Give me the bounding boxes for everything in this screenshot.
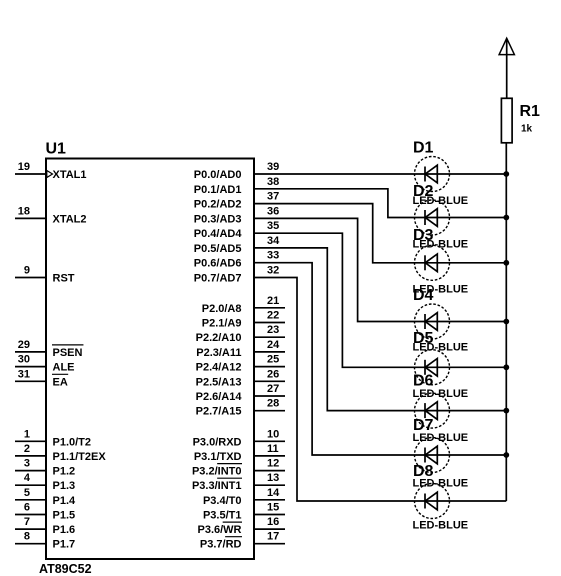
svg-text:17: 17: [267, 531, 279, 543]
pin 29 wire: [15, 351, 46, 353]
wire pin 39 to LED D1: [254, 173, 415, 175]
svg-text:P3.4/T0: P3.4/T0: [203, 495, 242, 507]
wire pin 37 to LED D3: [254, 204, 415, 263]
pin 3 wire: [15, 470, 46, 472]
pin 17 wire stub: [254, 543, 285, 545]
pin 22 wire stub: [254, 322, 285, 324]
svg-text:P1.0/T2: P1.0/T2: [53, 436, 92, 448]
svg-text:16: 16: [267, 516, 279, 528]
svg-text:19: 19: [18, 161, 30, 173]
overline INT0: [217, 463, 242, 465]
svg-text:P2.7/A15: P2.7/A15: [196, 406, 242, 418]
resistor R1: [501, 98, 512, 143]
svg-text:P2.2/A10: P2.2/A10: [196, 332, 242, 344]
svg-text:31: 31: [18, 368, 30, 380]
pin 23 wire stub: [254, 336, 285, 338]
pin 11 wire stub: [254, 455, 285, 457]
junction node D5/rail: [503, 364, 509, 370]
svg-text:AT89C52: AT89C52: [39, 562, 92, 576]
svg-text:30: 30: [18, 354, 30, 366]
LED D6: [415, 393, 450, 428]
svg-text:XTAL1: XTAL1: [53, 169, 87, 181]
svg-text:28: 28: [267, 398, 279, 410]
pin 2 wire: [15, 455, 46, 457]
LED D8 right lead wire: [415, 500, 507, 502]
svg-text:P2.6/A14: P2.6/A14: [196, 391, 243, 403]
svg-text:P2.1/A9: P2.1/A9: [202, 318, 242, 330]
svg-text:P2.3/A11: P2.3/A11: [196, 347, 241, 359]
pin 30 wire: [15, 366, 46, 368]
svg-text:P0.7/AD7: P0.7/AD7: [194, 273, 242, 285]
svg-text:32: 32: [267, 265, 279, 277]
pin 14 wire stub: [254, 499, 285, 501]
svg-text:14: 14: [267, 487, 280, 499]
LED D3 right lead wire: [415, 262, 507, 264]
svg-text:26: 26: [267, 368, 279, 380]
LED D4 right lead wire: [415, 321, 507, 323]
svg-text:P2.0/A8: P2.0/A8: [202, 303, 242, 315]
svg-text:P3.5/T1: P3.5/T1: [203, 510, 242, 522]
svg-text:D6: D6: [413, 373, 434, 390]
pin 12 wire stub: [254, 470, 285, 472]
svg-text:11: 11: [267, 443, 279, 455]
junction node D3/rail: [503, 260, 509, 266]
LED D8: [415, 484, 450, 519]
svg-text:34: 34: [267, 235, 280, 247]
svg-text:23: 23: [267, 324, 279, 336]
LED D2: [415, 200, 450, 235]
svg-text:P1.5: P1.5: [53, 510, 76, 522]
svg-text:P1.1/T2EX: P1.1/T2EX: [53, 451, 107, 463]
svg-text:P1.3: P1.3: [53, 480, 76, 492]
svg-text:D2: D2: [413, 183, 434, 200]
svg-text:39: 39: [267, 161, 279, 173]
svg-text:3: 3: [24, 458, 30, 470]
svg-text:29: 29: [18, 339, 30, 351]
svg-text:9: 9: [24, 265, 30, 277]
svg-text:13: 13: [267, 472, 279, 484]
pin 31 wire: [15, 380, 46, 382]
svg-text:7: 7: [24, 516, 30, 528]
pin 24 wire stub: [254, 351, 285, 353]
pin 6 wire: [15, 514, 46, 516]
svg-text:LED-BLUE: LED-BLUE: [413, 520, 469, 532]
svg-text:P0.0/AD0: P0.0/AD0: [194, 169, 242, 181]
svg-text:P0.3/AD3: P0.3/AD3: [194, 213, 242, 225]
svg-text:24: 24: [267, 339, 280, 351]
svg-text:P0.2/AD2: P0.2/AD2: [194, 199, 242, 211]
svg-text:18: 18: [18, 205, 30, 217]
svg-text:36: 36: [267, 205, 279, 217]
svg-text:P3.2/INT0: P3.2/INT0: [192, 466, 242, 478]
LED D1 right lead wire: [415, 173, 507, 175]
pin 28 wire stub: [254, 410, 285, 412]
svg-text:P3.6/WR: P3.6/WR: [197, 524, 241, 536]
LED D3: [415, 245, 450, 280]
svg-text:P1.4: P1.4: [53, 495, 77, 507]
XTAL1 clock marker: [47, 171, 53, 178]
svg-text:1: 1: [24, 428, 30, 440]
junction node D1/rail: [503, 171, 509, 177]
svg-text:22: 22: [267, 310, 279, 322]
wire pin 33 to LED D7: [254, 263, 415, 455]
pin 25 wire stub: [254, 366, 285, 368]
LED D7 right lead wire: [415, 454, 507, 456]
svg-text:EA: EA: [53, 376, 68, 388]
pin 7 wire: [15, 528, 46, 530]
overline WR: [223, 521, 242, 523]
svg-text:P3.7/RD: P3.7/RD: [200, 539, 242, 551]
overline RD: [225, 536, 242, 538]
pin 15 wire stub: [254, 514, 285, 516]
svg-text:6: 6: [24, 502, 30, 514]
pin 27 wire stub: [254, 395, 285, 397]
svg-text:1k: 1k: [521, 124, 533, 135]
svg-text:P0.1/AD1: P0.1/AD1: [194, 184, 242, 196]
svg-text:D5: D5: [413, 330, 434, 347]
LED D5: [415, 350, 450, 385]
pin 26 wire stub: [254, 380, 285, 382]
svg-text:P3.0/RXD: P3.0/RXD: [193, 436, 242, 448]
svg-text:12: 12: [267, 458, 279, 470]
LED D5 right lead wire: [415, 366, 507, 368]
svg-text:D7: D7: [413, 417, 434, 434]
wire pin 35 to LED D5: [254, 233, 415, 367]
wire pin 34 to LED D6: [254, 248, 415, 411]
svg-text:XTAL2: XTAL2: [53, 213, 87, 225]
pin 10 wire stub: [254, 440, 285, 442]
svg-text:RST: RST: [53, 273, 75, 285]
svg-text:P3.1/TXD: P3.1/TXD: [194, 451, 242, 463]
svg-text:35: 35: [267, 220, 279, 232]
LED D2 right lead wire: [415, 217, 507, 219]
svg-text:27: 27: [267, 383, 279, 395]
pin 19 wire: [15, 173, 46, 175]
svg-text:38: 38: [267, 176, 279, 188]
pin 18 wire: [15, 217, 46, 219]
svg-text:5: 5: [24, 487, 30, 499]
pin 16 wire stub: [254, 528, 285, 530]
overline INT1: [217, 477, 242, 479]
svg-text:P1.2: P1.2: [53, 466, 76, 478]
svg-text:15: 15: [267, 502, 279, 514]
svg-text:10: 10: [267, 428, 279, 440]
svg-text:4: 4: [24, 472, 31, 484]
svg-text:P0.4/AD4: P0.4/AD4: [194, 228, 243, 240]
svg-text:U1: U1: [46, 141, 67, 158]
pin 8 wire: [15, 543, 46, 545]
wire pin 32 to LED D8: [254, 278, 415, 502]
overline PSEN: [52, 344, 83, 346]
svg-text:D4: D4: [413, 287, 434, 304]
svg-text:D8: D8: [413, 463, 434, 480]
pin 4 wire: [15, 484, 46, 486]
IC U1 body: [46, 159, 254, 560]
junction node D2/rail: [503, 215, 509, 221]
junction node D6/rail: [503, 408, 509, 414]
svg-text:21: 21: [267, 295, 279, 307]
svg-text:PSEN: PSEN: [53, 347, 83, 359]
svg-text:ALE: ALE: [53, 362, 75, 374]
wire pin 38 to LED D2: [254, 189, 415, 218]
wire pin 36 to LED D4: [254, 218, 415, 321]
svg-text:P1.6: P1.6: [53, 524, 76, 536]
svg-text:P3.3/INT1: P3.3/INT1: [192, 480, 242, 492]
LED D7: [415, 438, 450, 473]
svg-text:P2.4/A12: P2.4/A12: [196, 362, 242, 374]
pin 13 wire stub: [254, 484, 285, 486]
svg-text:P2.5/A13: P2.5/A13: [196, 376, 242, 388]
pin 1 wire: [15, 440, 46, 442]
junction node D7/rail: [503, 452, 509, 458]
junction node D4/rail: [503, 319, 509, 325]
power symbol VCC arrow: [499, 38, 514, 98]
LED D4: [415, 304, 450, 339]
LED D1: [415, 157, 450, 192]
svg-text:37: 37: [267, 191, 279, 203]
wire VCC rail: [505, 143, 507, 501]
svg-text:33: 33: [267, 250, 279, 262]
svg-text:P1.7: P1.7: [53, 539, 76, 551]
svg-text:2: 2: [24, 443, 30, 455]
svg-text:D1: D1: [413, 140, 434, 157]
svg-text:R1: R1: [520, 103, 541, 120]
svg-text:P0.6/AD6: P0.6/AD6: [194, 258, 242, 270]
pin 5 wire: [15, 499, 46, 501]
pin 21 wire stub: [254, 307, 285, 309]
svg-text:LED-BLUE: LED-BLUE: [413, 388, 469, 400]
pin 9 wire: [15, 277, 46, 279]
svg-text:D3: D3: [413, 227, 434, 244]
overline EA: [52, 373, 68, 375]
LED D6 right lead wire: [415, 410, 507, 412]
svg-text:P0.5/AD5: P0.5/AD5: [194, 243, 242, 255]
svg-text:8: 8: [24, 531, 30, 543]
svg-text:25: 25: [267, 354, 279, 366]
